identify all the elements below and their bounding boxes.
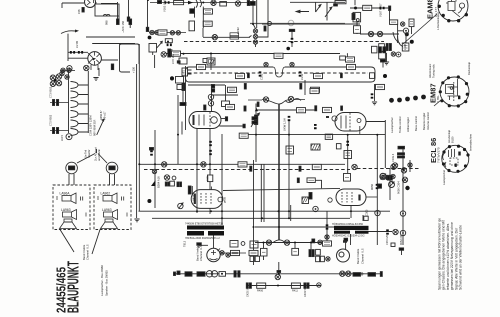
svg-text:BU20: BU20 <box>451 136 455 143</box>
svg-text:Anodenkap: Anodenkap <box>447 129 451 143</box>
svg-text:Lautsprecher: Lautsprecher <box>390 117 394 133</box>
svg-text:9052 C8: 9052 C8 <box>399 235 403 245</box>
svg-text:C2 95: C2 95 <box>75 40 79 48</box>
svg-text:COM 12BY 12BM: COM 12BY 12BM <box>89 115 93 136</box>
svg-text:Abstimmanz: Abstimmanz <box>428 63 432 78</box>
svg-text:R406: R406 <box>257 290 264 293</box>
svg-text:LA96A: LA96A <box>60 192 71 196</box>
svg-text:UKW 87: UKW 87 <box>99 110 103 120</box>
svg-text:Speaker - Box 2N955: Speaker - Box 2N955 <box>105 270 109 296</box>
svg-text:Treble control: Treble control <box>398 116 402 133</box>
svg-text:Lfd 5: Lfd 5 <box>60 135 64 141</box>
svg-text:R411: R411 <box>292 290 298 293</box>
svg-text:24455/465: 24455/465 <box>54 267 69 313</box>
svg-text:~AVK 156: ~AVK 156 <box>121 21 125 33</box>
svg-text:and blank: and blank <box>97 149 101 161</box>
svg-text:B264 A16: B264 A16 <box>157 176 161 188</box>
svg-text:156: 156 <box>77 9 81 14</box>
svg-text:Innenabschirm: Innenabschirm <box>469 134 473 151</box>
svg-text:V163 C162: V163 C162 <box>163 0 167 12</box>
svg-text:Tuning indic: Tuning indic <box>432 63 436 78</box>
svg-text:Band I treble: Band I treble <box>82 244 86 260</box>
svg-text:C72 162: C72 162 <box>171 53 175 64</box>
svg-text:UKW 1,5H: UKW 1,5H <box>283 118 287 131</box>
svg-text:LA963: LA963 <box>102 208 112 212</box>
svg-text:g405: g405 <box>223 197 227 203</box>
svg-text:C211: C211 <box>300 73 304 80</box>
svg-text:LA963: LA963 <box>61 208 71 212</box>
svg-text:Channel I LS: Channel I LS <box>199 245 203 261</box>
svg-text:C10k 4: C10k 4 <box>391 153 395 162</box>
svg-text:LA962: LA962 <box>101 192 111 196</box>
svg-text:HÖ504/504-C305-E-6/C350: HÖ504/504-C305-E-6/C350 <box>332 223 364 226</box>
svg-text:780/504+2306 394/504/508 u.2: 780/504+2306 394/504/508 u.2 <box>185 237 220 240</box>
svg-text:L198: L198 <box>403 44 407 50</box>
svg-text:9056 C304: 9056 C304 <box>397 181 401 194</box>
svg-text:Lautsprecher: Lautsprecher <box>442 170 446 185</box>
svg-text:C75 9052: C75 9052 <box>49 114 53 126</box>
svg-text:9056: 9056 <box>370 184 374 190</box>
svg-text:L.Deckenkapaz: L.Deckenkapaz <box>436 11 440 30</box>
svg-text:+150: +150 <box>132 66 136 73</box>
svg-text:Channel I LS: Channel I LS <box>86 244 90 260</box>
svg-text:Balance regler: Balance regler <box>422 113 426 130</box>
svg-text:1x61: 1x61 <box>182 70 186 76</box>
svg-text:V167 C167: V167 C167 <box>379 3 383 17</box>
svg-text:74450M ET80 ET878T838 HET38: 74450M ET80 ET878T838 HET38 <box>185 223 224 226</box>
svg-text:V 65L: V 65L <box>436 95 440 103</box>
svg-text:C425 50µ: C425 50µ <box>247 286 250 297</box>
svg-text:7 8Tb/V370: 7 8Tb/V370 <box>437 147 441 163</box>
svg-text:C35 F25: C35 F25 <box>385 234 389 245</box>
svg-text:Deckenkap: Deckenkap <box>467 61 471 75</box>
svg-text:Channel I LS: Channel I LS <box>361 248 365 264</box>
svg-text:998: 998 <box>105 20 109 25</box>
svg-text:Un-Teil: Un-Teil <box>84 150 88 158</box>
svg-text:C73 9052: C73 9052 <box>49 86 53 98</box>
svg-text:150k: 150k <box>207 175 210 181</box>
svg-text:V87A: V87A <box>192 194 196 201</box>
svg-text:Volume control: Volume control <box>426 112 430 130</box>
svg-text:C202: C202 <box>260 73 264 80</box>
svg-text:HÖ504/504C G35/504-L3 5G: HÖ504/504C G35/504-L3 5G <box>332 234 365 237</box>
svg-text:C431 50µ: C431 50µ <box>304 286 307 297</box>
svg-text:T813: T813 <box>183 240 187 247</box>
svg-text:9BY 9BM 31R: 9BY 9BM 31R <box>93 119 97 136</box>
svg-text:Höhenregler: Höhenregler <box>406 117 410 132</box>
svg-text:Lautsprecher - Box 24960: Lautsprecher - Box 24960 <box>100 265 104 296</box>
svg-text:Band I treble: Band I treble <box>356 248 360 264</box>
svg-text:Zur Austast: Zur Austast <box>94 147 98 161</box>
svg-text:Bass control: Bass control <box>414 116 418 131</box>
svg-text:FB-u17: FB-u17 <box>103 111 107 120</box>
svg-text:Schwund wird an der Wellenscha: Schwund wird an der Wellenschalter-Leist… <box>459 225 463 290</box>
svg-text:C305: C305 <box>365 209 369 216</box>
